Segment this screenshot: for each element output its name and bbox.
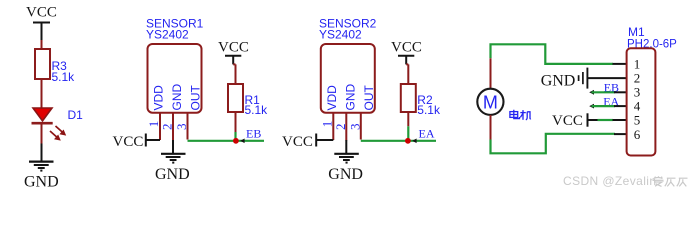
power port GND (connector pin2)	[541, 68, 588, 90]
svg-text:VDD: VDD	[152, 85, 166, 111]
svg-text:VCC: VCC	[113, 134, 144, 150]
svg-text:OUT: OUT	[362, 85, 376, 111]
ground (left)	[24, 144, 59, 191]
ground (sensor2 pin2)	[328, 154, 363, 183]
power port VCC (connector pin5)	[552, 113, 588, 129]
wire	[490, 58, 492, 88]
svg-text:2: 2	[634, 70, 641, 85]
svg-text:GND: GND	[155, 166, 190, 183]
power port VCC (top left)	[26, 5, 57, 41]
wire	[146, 139, 160, 141]
wire	[235, 112, 237, 132]
svg-text:5: 5	[634, 113, 641, 128]
power port VCC (above R2)	[391, 40, 422, 65]
svg-text:EB: EB	[246, 127, 261, 141]
svg-text:CSDN @Zevalin: CSDN @Zevalin	[563, 174, 656, 188]
wire (net EB)	[188, 140, 265, 142]
wire (EA to pin4)	[592, 105, 616, 107]
pin 1	[159, 113, 161, 140]
wire	[587, 77, 627, 79]
svg-text:3: 3	[348, 124, 363, 131]
svg-text:M: M	[483, 92, 498, 112]
svg-text:OUT: OUT	[189, 85, 203, 111]
svg-text:GND: GND	[541, 73, 576, 90]
svg-text:3: 3	[174, 124, 189, 131]
motor M (电机)	[477, 89, 503, 115]
resistor R1	[228, 84, 268, 117]
svg-text:GND: GND	[343, 84, 357, 111]
wire	[407, 112, 409, 126]
arrow marker EB	[240, 139, 244, 144]
svg-text:YS2402: YS2402	[146, 28, 189, 42]
svg-text:YS2402: YS2402	[319, 28, 362, 42]
arrow marker EA	[412, 139, 416, 144]
wire (motor bottom)	[490, 115, 492, 140]
wire (motor top to connector pin1)	[491, 44, 614, 64]
wire	[316, 139, 333, 141]
svg-text:VCC: VCC	[218, 40, 249, 56]
LED D1	[32, 108, 84, 141]
svg-text:GND: GND	[24, 174, 59, 191]
wire	[172, 140, 174, 153]
label 电机	[510, 110, 531, 120]
wire (EB to pin3)	[592, 91, 616, 93]
svg-text:3: 3	[634, 85, 641, 100]
svg-text:VCC: VCC	[26, 5, 57, 21]
wire	[41, 40, 43, 49]
svg-text:M1: M1	[628, 25, 645, 39]
arrow marker EA (pin4)	[589, 104, 594, 109]
power port VCC (sensor1 pin1)	[113, 134, 146, 151]
connector M1 PH2.0-6P	[627, 25, 678, 156]
pin 3	[360, 113, 362, 140]
svg-text:5.1k: 5.1k	[245, 103, 269, 117]
wire	[345, 140, 347, 153]
pin 2	[172, 113, 174, 141]
svg-text:4: 4	[634, 99, 641, 114]
svg-text:VCC: VCC	[282, 134, 313, 150]
svg-text:VCC: VCC	[391, 40, 422, 56]
wire	[234, 132, 236, 141]
svg-text:EA: EA	[419, 127, 435, 141]
svg-text:6: 6	[634, 127, 641, 142]
svg-text:2: 2	[333, 124, 348, 131]
resistor R2	[401, 84, 441, 117]
junction (EB node)	[233, 138, 239, 144]
svg-text:2: 2	[160, 124, 175, 131]
arrow marker EB (pin3)	[589, 90, 594, 95]
wire	[41, 79, 43, 108]
svg-text:VDD: VDD	[325, 85, 339, 111]
svg-text:1: 1	[634, 56, 641, 71]
power port VCC (sensor2 pin1)	[282, 134, 316, 151]
pin stubs (connector, black)	[613, 63, 628, 65]
wire	[41, 124, 43, 143]
wire	[598, 119, 614, 121]
svg-text:GND: GND	[328, 166, 363, 183]
svg-text:5.1k: 5.1k	[417, 103, 441, 117]
wire	[588, 119, 599, 121]
watermark CSDN @Zevalin爱灰灰	[563, 174, 688, 188]
power port VCC (above R1)	[218, 40, 249, 65]
svg-text:VCC: VCC	[552, 113, 583, 129]
wire (net EA)	[361, 140, 436, 142]
wire	[233, 64, 235, 84]
svg-text:5.1k: 5.1k	[52, 70, 76, 84]
sensor SENSOR2 YS2402	[319, 17, 377, 141]
wire	[406, 64, 408, 84]
resistor R3	[35, 49, 75, 84]
wire	[407, 126, 409, 141]
wire (motor bottom to connector pin6)	[491, 134, 616, 154]
sensor U? SENSOR1 YS2402	[146, 17, 204, 141]
junction (EA node)	[405, 138, 411, 144]
pin 1	[332, 113, 334, 140]
pin 2	[345, 113, 347, 141]
svg-text:GND: GND	[170, 84, 184, 111]
ground (sensor1 pin2)	[155, 154, 190, 183]
svg-text:D1: D1	[68, 108, 84, 122]
pin 3	[187, 113, 189, 140]
